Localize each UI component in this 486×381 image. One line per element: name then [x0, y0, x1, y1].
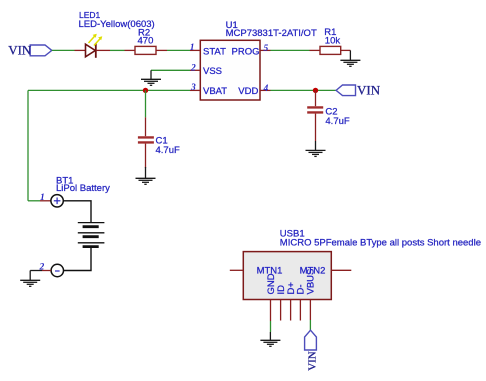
wire VIN flag to LED1 — [52, 49, 75, 51]
svg-text:2: 2 — [190, 63, 196, 73]
battery BT1 pin 1 wire — [28, 200, 40, 202]
ground below C2 — [306, 141, 326, 156]
wire VBUS pin to VIN flag — [309, 320, 311, 330]
U1 pin 3 stub — [190, 89, 200, 91]
svg-text:VDD: VDD — [238, 86, 258, 97]
wire left vertical to battery — [27, 90, 29, 200]
svg-text:1: 1 — [40, 193, 45, 203]
connector USB1 body — [243, 252, 331, 300]
svg-text:MCP73831T-2ATI/OT: MCP73831T-2ATI/OT — [226, 28, 317, 39]
svg-text:LiPol Battery: LiPol Battery — [56, 183, 110, 194]
ground below R1 — [340, 50, 360, 66]
svg-text:3: 3 — [190, 83, 196, 93]
USB1 MTN2 stub — [331, 269, 351, 271]
USB1 ID pin stub — [280, 300, 282, 321]
wire VBAT rail — [28, 89, 190, 91]
svg-text:STAT: STAT — [203, 47, 226, 58]
svg-text:5: 5 — [264, 44, 269, 54]
USB1 GND pin stub — [270, 300, 272, 322]
svg-text:MICRO 5PFemale BType all posts: MICRO 5PFemale BType all posts Short nee… — [280, 238, 481, 249]
svg-text:VBAT: VBAT — [203, 86, 227, 97]
svg-text:2: 2 — [39, 263, 45, 273]
U1 pin 2 stub — [190, 69, 200, 71]
wire junction down to C1 — [145, 90, 147, 117]
ground at VSS — [141, 70, 161, 85]
svg-text:VIN: VIN — [8, 43, 32, 58]
ground at battery negative — [20, 271, 40, 287]
svg-text:1: 1 — [190, 43, 195, 53]
USB1 D- pin stub — [299, 300, 301, 321]
USB1 D+ pin stub — [290, 300, 292, 321]
svg-text:10k: 10k — [325, 35, 341, 46]
svg-text:4.7uF: 4.7uF — [156, 145, 180, 156]
U1 pin 1 stub — [190, 49, 200, 51]
USB1 VBUS pin stub — [309, 300, 311, 321]
svg-text:VIN: VIN — [357, 83, 381, 98]
battery BT1 negative terminal circle — [51, 264, 63, 276]
wire VSS to ground — [151, 69, 190, 71]
wire VDD to VIN flag — [271, 89, 337, 91]
battery BT1 cells — [63, 201, 104, 271]
capacitor C1 — [138, 117, 154, 168]
U1 pin 4 stub — [260, 89, 271, 91]
svg-text:PROG: PROG — [232, 47, 260, 58]
junction VDD/C2 — [313, 88, 318, 93]
ground below C1 — [136, 167, 156, 184]
IC U1 MCP73831 body — [200, 40, 260, 100]
svg-text:VSS: VSS — [203, 66, 222, 77]
svg-text:4: 4 — [263, 84, 269, 94]
svg-text:VIN: VIN — [306, 351, 318, 371]
ground below USB1 — [260, 332, 280, 346]
svg-text:470: 470 — [138, 35, 154, 46]
LED D1 (LED1) — [75, 34, 111, 58]
resistor R1 — [310, 46, 351, 54]
wire LED1 to R2 — [110, 49, 125, 51]
wire GND pin to ground — [270, 321, 272, 332]
net flag VIN (bottom) — [305, 330, 319, 371]
USB1 MTN1 stub — [230, 269, 244, 271]
U1 pin 5 stub — [260, 49, 271, 51]
battery BT1 pin 2 wire — [42, 270, 51, 272]
net flag VIN (right) — [336, 83, 381, 98]
capacitor C2 — [307, 90, 323, 141]
wire PROG to R1 — [271, 49, 310, 51]
battery BT1 positive terminal circle — [51, 195, 63, 207]
net flag VIN (left) — [8, 43, 52, 58]
wire R2 to U1 pin 1 — [167, 49, 190, 51]
resistor R2 — [125, 46, 168, 54]
svg-text:VBUS: VBUS — [306, 269, 317, 295]
junction VBAT/C1 — [143, 88, 148, 93]
svg-text:4.7uF: 4.7uF — [325, 116, 349, 127]
